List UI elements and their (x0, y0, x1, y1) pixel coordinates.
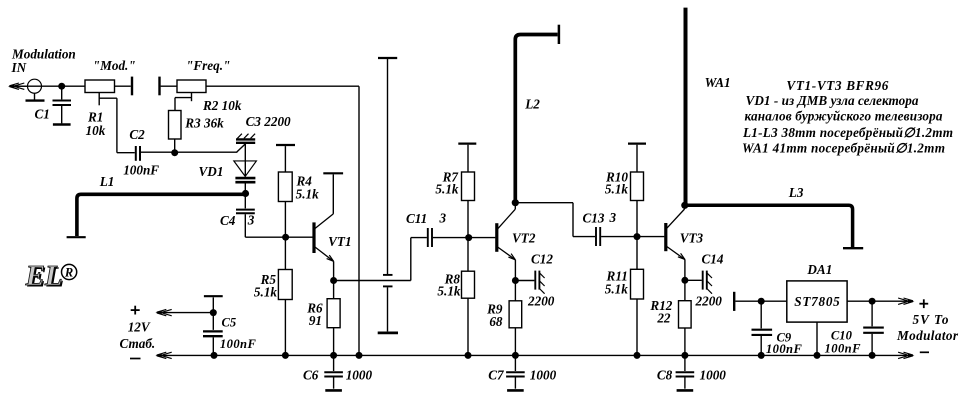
capacitor C9 (752, 301, 773, 355)
svg-text:ST7805: ST7805 (794, 294, 840, 309)
DA1 label (806, 262, 832, 277)
C3 value label (246, 114, 291, 129)
node junction C10 top (869, 298, 876, 305)
inductor L1 (67, 194, 246, 237)
svg-text:WA1: WA1 (705, 75, 731, 90)
VD1 label (199, 164, 224, 179)
potentiometer R2 "Freq." (160, 77, 207, 102)
ground bar under stub (378, 331, 398, 334)
svg-text:VT1-VT3 BFR96: VT1-VT3 BFR96 (786, 78, 888, 93)
resistor R11 (631, 237, 644, 356)
ground under C6 (325, 389, 342, 392)
svg-text:3: 3 (609, 210, 617, 225)
svg-text:VT1: VT1 (328, 234, 351, 249)
potentiometer R1 "Mod." (85, 77, 132, 106)
capacitor C1 (53, 86, 72, 123)
inductor L2 (515, 25, 559, 203)
R5 value label (254, 272, 277, 300)
negative rail arrow left (155, 352, 171, 358)
C13 value label (583, 210, 617, 226)
svg-text:5.1k: 5.1k (437, 283, 460, 298)
svg-text:C14: C14 (702, 252, 724, 267)
VT2 label (512, 231, 536, 246)
svg-text:C10: C10 (831, 329, 853, 343)
svg-text:C4: C4 (220, 213, 236, 228)
svg-text:C8: C8 (657, 368, 673, 383)
resistor R5 (278, 237, 292, 355)
svg-text:22: 22 (656, 311, 671, 326)
svg-text:1000: 1000 (700, 368, 727, 383)
svg-text:WA1 41mm посеребрёный∅1.2mm: WA1 41mm посеребрёный∅1.2mm (742, 141, 945, 156)
12V input arrow + (155, 309, 213, 315)
resistor R10 (631, 172, 644, 237)
svg-text:DA1: DA1 (806, 262, 832, 277)
svg-text:12V: 12V (128, 319, 151, 334)
wire R1 wiper to C2 (99, 98, 135, 153)
wire base to VT2 (469, 237, 496, 239)
svg-text:100nF: 100nF (825, 342, 862, 356)
svg-text:VD1: VD1 (199, 164, 224, 179)
capacitor C13 (596, 227, 637, 246)
node junction VT1 base (282, 234, 289, 241)
+12V bus bar at input (204, 296, 223, 312)
R6 value label (306, 301, 323, 329)
svg-text:EL: EL (25, 260, 63, 292)
+12V bus bar over R7 (458, 144, 476, 172)
svg-text:C13: C13 (583, 211, 605, 226)
svg-text:1000: 1000 (346, 368, 373, 383)
resistor R4 (278, 172, 292, 237)
svg-text:5.1k: 5.1k (296, 187, 319, 202)
transistor VT1 (314, 174, 334, 280)
svg-text:"Mod.": "Mod." (93, 58, 136, 73)
DA1 input terminal bar (734, 292, 787, 311)
capacitor C4 (236, 194, 286, 238)
svg-text:C1: C1 (35, 107, 50, 122)
svg-text:91: 91 (309, 313, 322, 328)
wire DA1 ground (816, 322, 818, 355)
capacitor C7 (506, 355, 525, 388)
inductor L3 (685, 205, 863, 248)
svg-text:2200: 2200 (527, 294, 555, 309)
node junction at C1 (58, 83, 65, 90)
node junction C9 top (758, 298, 765, 305)
svg-text:Modulator: Modulator (896, 328, 959, 343)
svg-text:C12: C12 (531, 252, 553, 267)
resistor R8 (462, 238, 475, 356)
C1 value label (35, 107, 50, 122)
capacitor C11 (428, 228, 469, 247)
capacitor C3 feedthrough (236, 134, 255, 152)
capacitor C14 feedthrough (685, 271, 712, 294)
svg-text:C7: C7 (488, 368, 505, 383)
svg-text:каналов буржуйского телевизора: каналов буржуйского телевизора (745, 109, 943, 124)
5V output labels (896, 299, 959, 352)
resistor R9 (509, 281, 522, 356)
C4 labels (220, 213, 255, 229)
svg-text:C3 2200: C3 2200 (246, 114, 291, 129)
svg-text:3: 3 (439, 211, 447, 226)
svg-text:2200: 2200 (695, 294, 723, 309)
VT3 label (680, 230, 704, 245)
wire R2 to Freq line (206, 86, 359, 355)
resistor R7 (462, 172, 475, 238)
svg-text:3: 3 (247, 213, 255, 228)
R1 label (86, 58, 136, 138)
ground under C8 (677, 389, 694, 392)
svg-text:C6: C6 (303, 368, 319, 383)
transistor VT3 (666, 205, 685, 280)
svg-text:C2: C2 (129, 127, 145, 142)
node junction VT2 emitter (512, 277, 519, 284)
wire base to VT1 (286, 236, 313, 238)
svg-text:L1-L3 38mm посеребрёный∅1.2mm: L1-L3 38mm посеребрёный∅1.2mm (742, 125, 953, 140)
C14 value label (695, 252, 724, 309)
resistor R12 (679, 280, 692, 355)
svg-text:IN: IN (11, 60, 27, 75)
svg-text:R2 10k: R2 10k (202, 98, 242, 113)
antenna WA1 (684, 8, 688, 206)
svg-text:68: 68 (489, 314, 503, 329)
node junction VT3 base (634, 233, 641, 240)
R2 label (186, 58, 242, 113)
ground under C7 (507, 389, 524, 392)
svg-text:100nF: 100nF (766, 342, 803, 356)
C5 value label (220, 316, 257, 352)
+12V bus bar over R4 (276, 145, 295, 172)
negative rail (157, 354, 900, 356)
varicap VD1 (234, 144, 257, 194)
svg-text:L3: L3 (788, 185, 804, 200)
wire R2 wiper to R3 (175, 98, 192, 111)
C10 value label (825, 329, 862, 356)
svg-text:VT2: VT2 (512, 231, 536, 246)
capacitor C12 feedthrough (515, 271, 544, 294)
VT1 label (328, 234, 351, 249)
svg-text:R3 36k: R3 36k (184, 116, 224, 131)
L3 label (788, 185, 804, 200)
node junction WA1 / L3 / VT3 collector (681, 202, 688, 209)
svg-text:VT3: VT3 (680, 230, 704, 245)
svg-text:L1: L1 (99, 174, 115, 189)
ground under C1 (53, 123, 71, 125)
stub line with bypass capacitor (378, 58, 397, 331)
L1 label (99, 174, 115, 189)
capacitor C8 (676, 355, 695, 388)
node junction VT2 collector (512, 199, 519, 206)
regulator DA1 ST7805 (787, 281, 847, 322)
wire VT1 emitter to C11 (334, 238, 427, 281)
svg-text:5.1k: 5.1k (605, 282, 628, 297)
svg-text:5.1k: 5.1k (254, 285, 277, 300)
C11 value label (406, 211, 447, 227)
C7 value label (488, 368, 556, 383)
R3 label (184, 116, 224, 131)
svg-text:5V To: 5V To (913, 312, 949, 327)
input connector circle (28, 79, 42, 93)
svg-text:Стаб.: Стаб. (120, 336, 156, 351)
EL logo (25, 260, 77, 294)
node junction VT1 emitter (330, 277, 337, 284)
L2 label (524, 97, 540, 112)
capacitor C5 (203, 313, 223, 356)
5V output arrow (898, 298, 914, 304)
capacitor C2 (136, 146, 140, 161)
svg-text:L2: L2 (524, 97, 540, 112)
ground under input connector (26, 93, 45, 100)
svg-text:10k: 10k (86, 123, 106, 138)
12V input labels (120, 306, 156, 359)
node junction VT2 base (465, 234, 472, 241)
C8 value label (657, 368, 726, 383)
svg-text:C5: C5 (222, 316, 237, 330)
capacitor C10 (863, 301, 884, 355)
svg-text:R: R (64, 266, 73, 280)
svg-text:100nF: 100nF (220, 337, 257, 351)
WA1 label (705, 75, 731, 90)
svg-text:5.1k: 5.1k (605, 181, 628, 196)
node junction L1 top (242, 190, 249, 197)
C12 value label (527, 252, 555, 309)
svg-text:VD1 - из ДМВ узла селектора: VD1 - из ДМВ узла селектора (746, 93, 919, 108)
resistor R6 (327, 281, 340, 356)
R7 value label (435, 169, 459, 196)
svg-text:C11: C11 (406, 211, 427, 226)
svg-text:1000: 1000 (530, 368, 557, 383)
wire DA1 output (847, 300, 899, 302)
wire VT2 collector to C13 (515, 203, 595, 237)
VT1 collector stub bar (323, 172, 343, 174)
+12V bus bar over R10 (628, 144, 646, 172)
R12 value label (649, 298, 672, 326)
wire base to VT3 (637, 236, 664, 238)
node dots on negative rail (211, 352, 876, 359)
notes text block (742, 78, 953, 156)
resistor R3 (169, 111, 182, 153)
node junction R3 bottom (171, 149, 178, 156)
node junction VT3 emitter (681, 277, 688, 284)
R4 value label (296, 174, 320, 202)
R9 value label (486, 302, 503, 330)
svg-text:"Freq.": "Freq." (186, 58, 230, 73)
C2 labels (123, 127, 159, 178)
svg-text:100nF: 100nF (123, 163, 159, 178)
node junction C5 top (210, 309, 217, 316)
R11 value label (605, 268, 628, 296)
C6 value label (303, 368, 372, 383)
transistor VT2 (497, 203, 516, 281)
input connector arrow (8, 83, 28, 89)
node Modulation IN label (11, 47, 76, 76)
svg-text:5.1k: 5.1k (435, 181, 458, 196)
negative rail arrow right (898, 352, 914, 358)
wire C2 to C3 (141, 151, 237, 153)
R10 value label (605, 169, 628, 196)
C9 value label (766, 330, 803, 356)
R8 value label (437, 271, 460, 298)
capacitor C6 (324, 355, 343, 388)
wire input to R1 (11, 85, 85, 87)
